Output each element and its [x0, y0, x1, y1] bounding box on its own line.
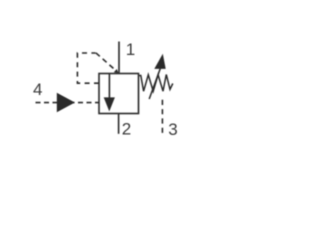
internal flow arrowhead	[104, 97, 115, 111]
port 3 drain line (dashed)	[161, 100, 163, 134]
svg-text:1: 1	[126, 40, 135, 59]
adjustment arrowhead	[154, 54, 165, 69]
valve envelope U1	[99, 74, 139, 114]
svg-text:4: 4	[33, 80, 42, 99]
adjustment arrow shaft	[149, 69, 160, 100]
spring (zigzag)	[139, 75, 173, 92]
pilot diagonal line (dashed)	[96, 53, 114, 69]
port 4 flow arrowhead	[57, 93, 75, 113]
internal flow path line	[108, 74, 110, 100]
port 1 line	[118, 42, 120, 74]
port 2 line	[118, 114, 120, 134]
port 4 pilot line (dashed)	[36, 102, 100, 104]
pilot control line loop (dashed)	[77, 53, 99, 83]
svg-text:2: 2	[122, 120, 131, 139]
svg-text:3: 3	[168, 120, 177, 139]
pilot line arrowhead	[114, 69, 119, 73]
